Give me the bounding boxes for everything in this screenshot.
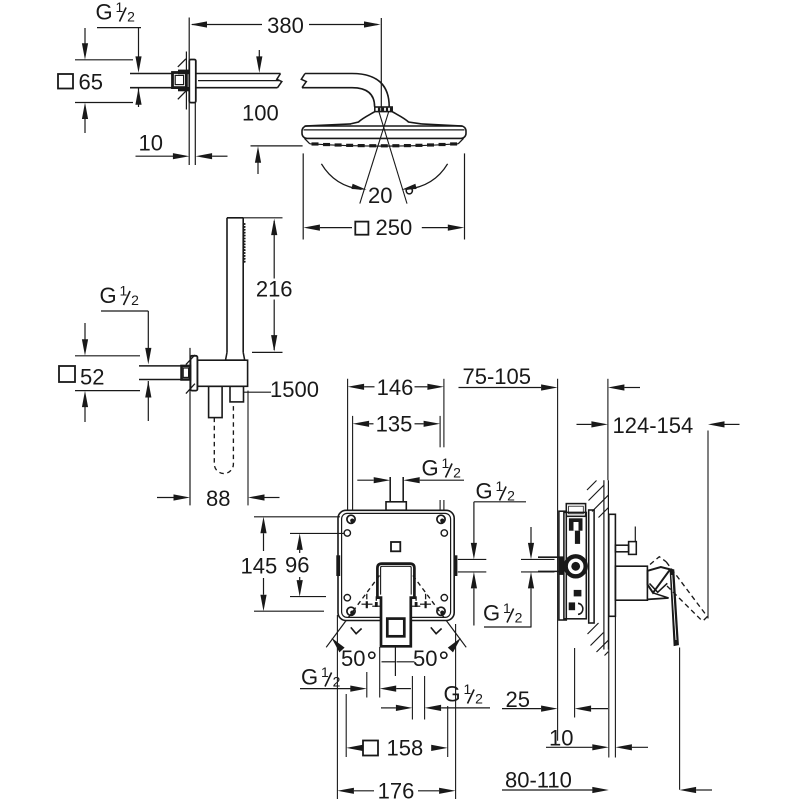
G 1/2 leader and arrows top port (357, 479, 373, 481)
dim 216 line (273, 221, 275, 279)
diverter body (377, 564, 414, 647)
pipe break left (277, 74, 282, 88)
top port pipe (389, 477, 391, 502)
svg-text:50: 50 (413, 646, 437, 671)
arrow 380 right (364, 21, 381, 27)
head bell right (392, 112, 421, 124)
body outer (338, 510, 454, 620)
spray nozzles (312, 142, 319, 145)
side view inlet arrows (530, 527, 532, 543)
ext line 135 right (439, 416, 441, 447)
flange back plate line (185, 52, 187, 110)
ext line box front plane (557, 379, 559, 741)
shower arm right segment with bend (305, 74, 389, 107)
arrow 380 left (191, 21, 208, 27)
plumb line head centre (380, 18, 382, 111)
internal detail square (569, 518, 583, 530)
side hole top-left (344, 530, 350, 536)
svg-text:2: 2 (333, 673, 341, 689)
dim 135 (353, 421, 370, 427)
bracket upper block (178, 70, 189, 75)
svg-text:50: 50 (341, 646, 365, 671)
dim 146 (348, 384, 365, 390)
dim 96 arrows (297, 533, 303, 550)
bracket escutcheon (191, 356, 198, 391)
svg-text:1: 1 (120, 283, 128, 299)
G 1/2 arrow below pipe (135, 88, 141, 105)
vee mark right (431, 627, 442, 633)
hose port right (230, 386, 244, 402)
dim 96 ext bottom (290, 596, 326, 598)
dimension 10 line left (136, 155, 174, 157)
svg-text:65: 65 (79, 70, 103, 95)
ext line bracket esc bottom (75, 390, 140, 392)
G 1/2 arrow above pipe (135, 56, 141, 73)
svg-text:216: 216 (256, 277, 293, 302)
svg-text:G: G (476, 479, 493, 504)
arrow 52 top (84, 323, 86, 340)
svg-text:G: G (444, 682, 461, 707)
dim 75-105 (459, 387, 542, 389)
spray arc arrow right (407, 164, 448, 190)
svg-text:96: 96 (285, 553, 309, 578)
svg-text:G: G (483, 601, 500, 626)
hand shower stick (226, 218, 228, 353)
internal detail bar (575, 531, 580, 544)
wall line at hand shower (189, 348, 191, 506)
svg-text:2: 2 (453, 464, 461, 480)
cartridge housing (615, 566, 647, 600)
index marks left (366, 594, 368, 600)
G 1/2 arrow above pipe (145, 348, 151, 365)
svg-text:1500: 1500 (270, 377, 319, 402)
svg-text:135: 135 (376, 412, 413, 437)
G 1/2 leader line (97, 27, 141, 29)
svg-text:146: 146 (377, 375, 414, 400)
side hole bottom-left (344, 595, 350, 601)
spray angle line left (360, 112, 389, 204)
spray arc arrow left (321, 164, 361, 190)
svg-text:1: 1 (321, 664, 329, 680)
swing arrow right (448, 638, 461, 653)
internal detail arc (578, 603, 583, 614)
svg-text:158: 158 (387, 736, 424, 761)
supply pipe behind wall (130, 73, 173, 75)
handle paddle (648, 567, 671, 593)
spray angle line right (379, 112, 407, 204)
arrow 52 bottom (84, 406, 86, 422)
bracket tick top (186, 355, 195, 365)
dim 176 (337, 788, 354, 794)
swing line right solid part (447, 622, 466, 648)
dimension 100 arrow down (258, 50, 260, 57)
dimension 380 line (192, 24, 262, 26)
dim sq250 ext left (302, 153, 304, 239)
ext line 25 right (574, 648, 576, 718)
bottom port ext lines left pair (366, 672, 368, 698)
dim 88 ext right (247, 391, 249, 506)
internal detail lower square (569, 602, 575, 610)
hose dashed loop (214, 402, 233, 474)
svg-text:80-110: 80-110 (505, 768, 572, 793)
wall section lines (603, 480, 605, 649)
swing line right dashed (413, 576, 447, 622)
flange front ext line (194, 103, 196, 165)
side view body (564, 512, 586, 618)
top port nut (386, 502, 406, 510)
pipe break right (301, 74, 306, 88)
trim plate ext lines (608, 616, 610, 757)
wall hatch top (587, 481, 597, 491)
handle lever blade (670, 569, 678, 645)
ext line flange top (75, 59, 133, 61)
hand shower spray dots (244, 223, 246, 225)
head bottom ext line (251, 145, 303, 147)
side view top cap (566, 504, 585, 517)
wall line at shower arm (188, 18, 190, 166)
side view back plate (559, 511, 566, 620)
svg-text:1: 1 (116, 0, 124, 15)
front view side port ext lines (458, 558, 487, 560)
head band inner line (304, 129, 465, 131)
dim 145 arrows (260, 517, 266, 534)
svg-text:G: G (422, 456, 439, 481)
dim 88 right (248, 494, 265, 500)
arrow 65 top (84, 28, 86, 44)
square symbol 52 (59, 366, 75, 382)
dimension 10 line right (196, 153, 213, 159)
side view inlet ext lines (521, 558, 555, 560)
svg-text:G: G (301, 665, 318, 690)
bracket wall nipple (182, 366, 191, 380)
dim 124-154 (577, 423, 592, 425)
ext line 146 right (443, 379, 445, 448)
swing arrow left (332, 638, 345, 653)
handle cone bottom (648, 598, 669, 599)
screw hole bottom-right (437, 607, 445, 615)
body inner (342, 513, 451, 617)
head face bottom (310, 144, 458, 146)
mounting bracket bar (589, 510, 594, 623)
ext line bracket esc top (75, 355, 140, 357)
hand shower flare (226, 352, 245, 360)
svg-text:1: 1 (442, 455, 450, 471)
G 1/2 leader (101, 310, 148, 312)
svg-text:1: 1 (503, 600, 511, 616)
svg-text:380: 380 (267, 13, 304, 38)
vee mark left (351, 627, 362, 633)
internal detail lower bar (574, 590, 582, 597)
svg-text:20: 20 (368, 183, 392, 208)
dimension 100 arrow up (255, 146, 261, 163)
svg-text:52: 52 (80, 365, 104, 390)
side hole bottom-right (441, 595, 447, 601)
index marks right (425, 594, 427, 600)
centre reference line (394, 647, 396, 677)
leader side port right (474, 501, 526, 503)
svg-text:75-105: 75-105 (463, 364, 532, 389)
bracket body (197, 360, 247, 386)
hose port left (209, 386, 223, 417)
diverter inner line (381, 566, 412, 594)
shower arm left segment (196, 73, 281, 75)
square symbol 65 (58, 74, 73, 89)
dim 145 ext bottom (254, 610, 324, 612)
head top slope right (422, 124, 463, 126)
head band (302, 126, 466, 138)
svg-text:1: 1 (496, 478, 504, 494)
ext line handle tip (679, 648, 681, 790)
svg-text:2: 2 (127, 8, 135, 24)
ext line 135 left (352, 416, 354, 510)
ext line flange bottom (75, 102, 133, 104)
supply pipe side view (538, 556, 564, 558)
svg-text:176: 176 (378, 778, 415, 800)
arrow 65 bottom (84, 117, 86, 133)
swing line left dashed (345, 576, 379, 622)
handle dashed position (650, 557, 666, 565)
wall tick top (178, 59, 186, 67)
dim 216 ext bottom (252, 351, 283, 353)
sq158 ext right (447, 706, 449, 757)
inlet nub (560, 557, 564, 575)
screw hole bottom-left (347, 607, 355, 615)
svg-text:88: 88 (206, 486, 230, 511)
head face left edge (305, 138, 310, 143)
head bell left (351, 112, 375, 124)
hand shower supply pipe (139, 365, 182, 367)
side hole top-right (441, 530, 447, 536)
screw hole top-left (347, 515, 355, 523)
bracket lower block (178, 87, 189, 91)
outlet tab left (336, 555, 340, 576)
dim 96 ext top (290, 532, 344, 534)
dim 145 ext top (254, 516, 340, 518)
flange escutcheon side view (189, 60, 196, 103)
G 1/2 arrow below pipe (145, 381, 151, 398)
outlet tab right (454, 555, 458, 576)
sq250 arrow right (422, 227, 448, 229)
dim 176 ext left (336, 615, 338, 799)
ext line handle dashed end (707, 431, 709, 619)
svg-text:145: 145 (241, 554, 278, 579)
svg-text:2: 2 (131, 292, 139, 308)
dim 216 arrows (271, 219, 277, 236)
svg-text:250: 250 (376, 215, 413, 240)
centre square opening (391, 542, 400, 551)
handle paddle crease (650, 583, 668, 592)
svg-text:124-154: 124-154 (613, 413, 694, 438)
trim plate side view (609, 514, 616, 616)
head face right edge (458, 138, 463, 143)
svg-text:10: 10 (139, 131, 163, 156)
wall nipple nut (173, 73, 187, 88)
fixing screw (615, 545, 628, 552)
dim 88 left (157, 497, 174, 499)
swing line left solid part (326, 622, 345, 648)
wall tick bottom (178, 91, 186, 99)
ext line wall face (607, 379, 609, 480)
leader 1500 (244, 391, 271, 393)
dim 176 ext right (455, 624, 457, 799)
wall hatch bottom (588, 623, 599, 634)
ext line 146 left (347, 379, 349, 510)
bottom port dim right pair (381, 707, 396, 709)
svg-text:G: G (96, 0, 113, 25)
svg-text:100: 100 (242, 101, 279, 126)
dim sq158 (346, 745, 363, 751)
svg-text:1: 1 (464, 681, 472, 697)
screw hole top-right (437, 515, 445, 523)
bracket tick bottom (186, 384, 195, 394)
svg-text:2: 2 (507, 487, 515, 503)
svg-text:2: 2 (475, 690, 483, 706)
head connection nut (375, 107, 392, 112)
svg-text:2: 2 (515, 609, 523, 625)
square symbol 250 (355, 222, 368, 235)
dim sq250 ext right (464, 153, 466, 239)
head top slope left (305, 124, 352, 126)
sq250 arrow left (303, 225, 320, 231)
dim 216 ext top (227, 217, 283, 219)
diverter square opening (387, 619, 404, 637)
sq158 ext left (345, 694, 347, 757)
svg-text:G: G (100, 283, 117, 308)
cartridge circle (564, 554, 588, 578)
